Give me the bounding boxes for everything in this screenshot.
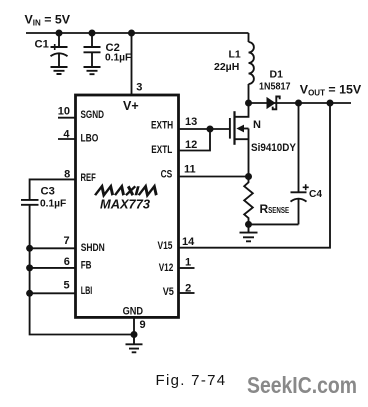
capacitor C2 lead [91,33,93,47]
node dot VIN-C2 [89,30,96,37]
diode D1 schottky cathode [273,97,280,110]
ground for RSENSE [240,224,258,241]
node dot VIN-C1 [56,30,63,37]
wire pin 14 V15 to VOUT rail [179,103,331,248]
polarity plus C4 [303,184,309,190]
svg-text:9: 9 [140,319,146,331]
capacitor C1 lead [58,33,60,47]
svg-text:N: N [253,119,261,131]
svg-text:SGND: SGND [81,109,105,121]
ground for GND pin 9 [126,335,143,353]
capacitor C1 lower lead [58,53,60,66]
capacitor C4 lower lead [298,199,300,225]
diode D1 triangle [267,97,276,109]
wire pin 10 stub [58,117,76,119]
svg-text:SHDN: SHDN [81,242,105,254]
op-amp U1 IC body MAX773 [76,95,179,317]
capacitor C4 upper lead [298,103,300,192]
svg-text:FB: FB [81,259,92,271]
svg-text:V12: V12 [159,262,174,274]
svg-text:14: 14 [182,236,195,248]
svg-text:2: 2 [185,283,191,295]
svg-text:CS: CS [161,169,173,181]
svg-text:Fig. 7-74: Fig. 7-74 [156,372,227,389]
capacitor C3 plates [21,200,39,205]
wire pin 4 stub [58,138,76,140]
svg-text:0.1µF: 0.1µF [40,198,66,209]
svg-text:RSENSE: RSENSE [260,202,290,216]
capacitor C4 plates [291,191,307,193]
svg-text:5: 5 [63,279,69,291]
svg-text:V15: V15 [158,240,173,252]
svg-text:22µH: 22µH [214,61,239,73]
wire VOUT rail [249,102,352,104]
transistor Q1 body lead [243,128,249,130]
node dot RSENSE bottom [245,221,252,228]
svg-text:D1: D1 [270,68,284,80]
svg-text:13: 13 [185,116,197,128]
node dot FB [26,264,33,271]
transistor Q1 drain lead [235,103,249,117]
node dot VOUT rail [327,100,334,107]
node dot SHDN [26,245,33,252]
svg-text:SeekIC.com: SeekIC.com [247,372,357,398]
svg-text:C1: C1 [35,39,49,51]
wire pin 8 REF to C3 [30,179,76,199]
svg-text:10: 10 [58,106,70,118]
ground for C1 [51,67,68,74]
svg-text:VIN = 5V: VIN = 5V [25,13,71,28]
node dot LBI [26,290,33,297]
svg-text:V5: V5 [163,286,175,298]
svg-text:3: 3 [136,82,142,94]
svg-text:V+: V+ [123,99,139,113]
svg-text:LBI: LBI [81,285,93,297]
wire V+ pin 3 [131,33,133,95]
node dot CS-source [245,173,252,180]
svg-text:1N5817: 1N5817 [259,82,291,93]
wire C3 to bottom rail [30,205,134,335]
svg-text:8: 8 [64,168,70,180]
transistor Q1 arrow [236,125,244,133]
capacitor C1 plates [51,46,68,48]
capacitor C2 plates [84,47,101,52]
svg-text:11: 11 [184,164,196,176]
wire pin 13 EXTH to gate [179,128,230,130]
svg-text:C4: C4 [309,189,322,200]
logo MAXIM [95,186,159,195]
ground for C2 [84,67,101,74]
node dot gate [207,126,214,133]
svg-text:Si9410DY: Si9410DY [251,142,297,154]
transistor Q1 channel line [233,111,235,145]
svg-text:EXTH: EXTH [151,120,173,132]
wire L1 top feed [248,33,250,42]
svg-text:MAX773: MAX773 [100,197,150,212]
node dot drain [245,100,252,107]
wire VIN top rail [26,32,249,34]
svg-text:6: 6 [64,256,70,268]
svg-text:REF: REF [81,172,96,184]
wire pin 9 stub [133,318,135,335]
wire pin 6 FB [30,267,76,269]
wire pin 7 SHDN [30,247,76,249]
svg-text:4: 4 [63,128,70,140]
transistor Q1 gate line [229,118,231,139]
node dot C4 top [295,100,302,107]
svg-text:C3: C3 [41,186,55,198]
svg-text:L1: L1 [229,49,241,61]
inductor L1 [249,42,254,84]
transistor Q1 source lead [235,129,249,177]
svg-text:7: 7 [63,235,69,247]
svg-text:1: 1 [185,257,191,269]
polarity plus C1 [52,44,58,50]
wire pin 2 stub [179,292,195,294]
wire L1 to drain node [248,84,250,103]
capacitor C2 lower lead [91,52,93,66]
node dot VIN-V+ [128,30,135,37]
svg-text:LBO: LBO [81,133,99,145]
svg-text:GND: GND [123,306,144,318]
node dot GND [131,331,138,338]
wire RSENSE node to C4 [249,223,299,225]
wire pin 5 LBI [30,292,76,294]
svg-text:VOUT = 15V: VOUT = 15V [300,83,362,98]
resistor RSENSE [244,177,253,225]
wire pin 12 EXTL loop [179,129,211,151]
svg-text:EXTL: EXTL [151,144,172,156]
wire pin 1 stub [179,267,195,269]
wire pin 11 CS [179,176,249,178]
svg-text:12: 12 [185,139,197,151]
svg-text:0.1µF: 0.1µF [105,52,131,63]
